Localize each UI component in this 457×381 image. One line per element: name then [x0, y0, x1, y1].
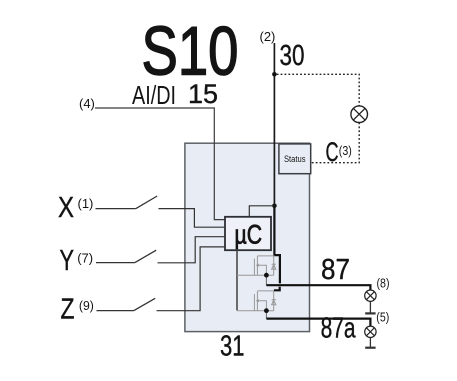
- wire output 87: [266, 285, 370, 290]
- lamp (5): [365, 326, 376, 337]
- wire uC supply stub: [249, 206, 274, 217]
- svg-text:C: C: [326, 137, 339, 167]
- ground lamp8: [369, 301, 371, 312]
- svg-text:30: 30: [280, 40, 305, 72]
- mosfet Q1 high-side: [237, 256, 276, 275]
- wire hop continuation to low mosfet drain: [274, 287, 280, 291]
- svg-text:µC: µC: [235, 220, 263, 250]
- svg-text:31: 31: [220, 331, 245, 363]
- svg-text:(7): (7): [77, 251, 93, 266]
- module box S10: [185, 143, 310, 331]
- wire Z to uC: [157, 247, 226, 311]
- wire terminal 15/AI-DI: [95, 108, 225, 220]
- svg-text:X: X: [58, 192, 74, 224]
- wire Q1 source drop: [265, 278, 267, 286]
- svg-text:Z: Z: [61, 294, 75, 326]
- lamp (8): [365, 290, 376, 301]
- svg-text:(8): (8): [377, 277, 390, 291]
- wire output 87a: [266, 319, 370, 326]
- node Q1 source: [264, 273, 269, 278]
- svg-text:(5): (5): [376, 311, 389, 325]
- svg-text:87: 87: [321, 254, 350, 286]
- wire X to uC: [159, 209, 226, 228]
- svg-text:(2): (2): [260, 29, 276, 44]
- svg-text:15: 15: [188, 79, 218, 109]
- switch X: [96, 208, 136, 210]
- node Q2 source: [264, 308, 269, 313]
- lamp C (3): [351, 106, 368, 123]
- ground lamp5: [369, 338, 371, 348]
- svg-text:(1): (1): [78, 196, 94, 211]
- gate drive bus from uC: [236, 250, 238, 310]
- mosfet Q2 low-side: [237, 291, 276, 311]
- node 30 tap: [272, 72, 277, 77]
- switch Z: [97, 310, 134, 312]
- svg-text:S10: S10: [142, 13, 239, 90]
- uC box: [225, 217, 271, 250]
- svg-text:87a: 87a: [321, 313, 356, 345]
- svg-text:Status: Status: [284, 154, 306, 164]
- switch Y: [96, 262, 135, 264]
- dashed wire to lamp C: [277, 74, 360, 162]
- wire 30 rail upper: [273, 43, 275, 206]
- wire Y to uC: [158, 237, 226, 263]
- svg-text:(4): (4): [79, 96, 95, 111]
- wire Q2 source drop: [265, 313, 267, 319]
- svg-text:(3): (3): [339, 144, 352, 158]
- wire 30 rail lower thick: [274, 206, 280, 284]
- node uC supply tap: [272, 204, 277, 209]
- status box: [279, 144, 311, 174]
- svg-text:Y: Y: [60, 245, 75, 277]
- svg-text:AI/DI: AI/DI: [132, 82, 176, 110]
- svg-text:(9): (9): [79, 298, 94, 313]
